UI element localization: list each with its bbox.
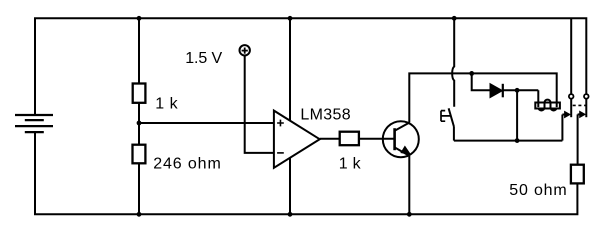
wire: diode cathode to coil left lead: [503, 90, 539, 107]
wire: hold link (coil low side to contact): [454, 140, 563, 142]
wire: op-amp V+ supply lead: [289, 18, 291, 122]
resistor R4 50 ohm: [571, 165, 584, 184]
wire: collector lead up and across to relay coil: [409, 73, 556, 122]
wire: right contact to 50 ohm resistor: [577, 114, 579, 164]
node: top rail / op-amp V+: [288, 16, 293, 21]
svg-text:1.5 V: 1.5 V: [185, 50, 222, 67]
wire: divider node to op-amp + input: [139, 122, 274, 124]
node: bottom rail / divider: [137, 212, 142, 217]
wire: 1.5V source lead down and to op-amp - input: [245, 56, 274, 153]
node: divider midpoint: [137, 121, 142, 126]
svg-text:50 ohm: 50 ohm: [509, 182, 566, 199]
wire: divider mid segment: [138, 103, 140, 145]
voltage source 1.5 V terminal: [240, 45, 250, 55]
wire: diode branch from collector node: [472, 73, 491, 90]
wire: left rail (battery top lead) and top rail: [35, 18, 586, 115]
wire: pushbutton lower lead to hold link: [453, 127, 455, 141]
relay contact CR1a (left): [562, 94, 573, 117]
mechanical link (dashed): [573, 104, 587, 106]
node: diode cathode / coil left: [515, 88, 520, 93]
resistor R2 246 ohm: [133, 145, 146, 164]
pushbutton S1: [441, 108, 454, 126]
op-amp U1 LM358: [274, 111, 320, 168]
wire: link vertical at node: [516, 90, 518, 140]
node: bottom rail / op-amp V-: [288, 212, 293, 217]
wire: left contact lower lead: [561, 115, 563, 141]
wire: divider branch upper lead: [138, 18, 140, 83]
wire: op-amp output: [320, 138, 340, 140]
svg-text:1 k: 1 k: [339, 156, 362, 173]
wire: battery bottom lead, bottom rail, 50 ohm lower lead: [35, 132, 577, 214]
resistor R3 1 k: [340, 132, 359, 146]
diode D1: [490, 84, 503, 98]
relay contact CR1b (right): [578, 94, 589, 117]
resistor R1 1 k: [133, 84, 146, 103]
wire: divider branch lower lead: [138, 163, 140, 214]
wire: pushbutton upper lead with hop over collector wire: [452, 18, 454, 107]
wire: op-amp V- supply lead: [289, 156, 291, 214]
battery B1: [15, 115, 53, 132]
node: collector line / diode branch: [469, 71, 474, 76]
node: bottom rail / emitter: [407, 212, 412, 217]
relay coil K1: [535, 100, 560, 111]
svg-text:246 ohm: 246 ohm: [153, 156, 221, 173]
wire: left contact upper lead: [570, 18, 572, 93]
svg-text:1 k: 1 k: [155, 96, 178, 113]
node: top rail / divider: [137, 16, 142, 21]
node: top rail / pushbutton: [452, 16, 457, 21]
transistor Q1: [383, 121, 419, 157]
wire: emitter lead down: [408, 156, 410, 215]
wire: base wire: [359, 138, 395, 140]
svg-text:LM358: LM358: [300, 107, 350, 124]
node: hold link: [515, 138, 520, 143]
